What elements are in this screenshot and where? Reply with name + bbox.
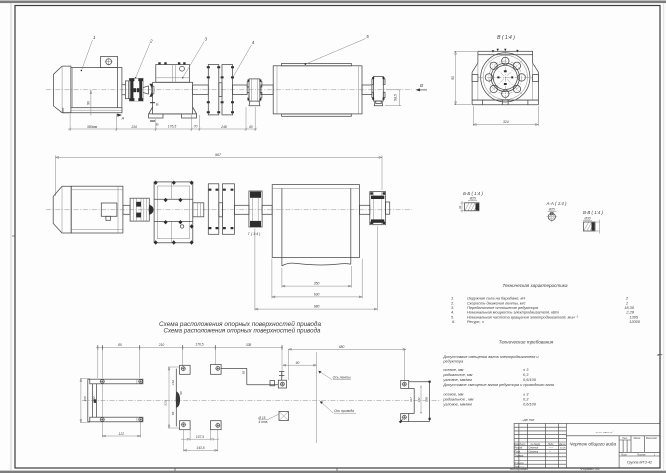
svg-text:90: 90 [296,361,300,365]
dim 107.5 under mid pads [181,430,219,441]
scheme dim chain line [96,347,283,349]
disc bolt marks right disc [221,66,234,113]
dim 98.5 vertical [385,90,401,106]
leader 4 disc coupling [233,45,252,78]
svg-text:Н.контр.: Н.контр. [515,463,525,465]
frame zone tick left [12,235,15,237]
bolt bottom-left [100,418,104,422]
diagonal centerline NE-SW [488,60,524,96]
dim 90 small [283,364,317,366]
flange outer circle [481,53,530,102]
title block row lines left part [514,427,566,464]
tension bracket pad [278,380,286,388]
svg-text:162: 162 [171,380,175,385]
bolt top-right [139,380,143,384]
svg-text:В: В [420,83,423,88]
sheet right edge line [663,3,664,471]
svg-text:210: 210 [158,343,165,347]
sheet bottom edge bar [0,471,666,473]
svg-text:Формат А1: Формат А1 [580,467,600,471]
svg-text:Группа МТЗ-42: Группа МТЗ-42 [627,461,652,465]
dim 680 bearing span [255,226,377,310]
bolt circle centerline [489,61,522,94]
right bracket dim arrow dots [429,381,431,420]
tension bracket side piece [270,381,275,386]
bearing P1 bolt dots [248,80,262,101]
bolt bottom-right [139,418,143,422]
bracket centerline slot blob [94,399,97,403]
bearing P2 bolt dots [372,77,384,100]
svg-text:Допустимое смещение валов реду: Допустимое смещение валов редуктора и пр… [442,382,554,387]
hole detail square [279,412,289,421]
hub inner lines [197,203,200,217]
svg-text:Лист: Лист [518,444,525,446]
disc plan hub [219,203,223,217]
center cross horizontal [478,76,533,78]
gearbox right foot [182,107,197,118]
bearing plan cap lines [253,198,259,221]
coupling outline box [129,78,143,101]
plate bottom pad [180,421,191,430]
svg-text:Ресурс, ч: Ресурс, ч [467,319,484,324]
shaft disc to bearing plan [234,205,249,214]
section A-A hatch [549,213,555,220]
svg-text:4: 4 [252,40,255,45]
svg-text:50: 50 [179,391,183,395]
housing base [472,100,538,105]
motor M1 terminal box [101,57,118,68]
disc plan bolt marks top [209,189,234,191]
motor M1 plan bell [53,186,71,233]
svg-text:122: 122 [119,432,125,436]
disc bolt marks left disc [207,66,220,113]
motor M1 foot line [71,109,122,111]
svg-text:107,5: 107,5 [196,435,204,439]
right part row lines [619,452,660,456]
svg-text:Смирнов: Смирнов [529,452,539,454]
gearbox plan center vertical [170,182,172,243]
frame zone mark right [658,354,663,356]
svg-text:Ø30: Ø30 [583,217,590,221]
section A-A shaft circle [548,213,555,220]
shaft drum to right bearing plan [360,205,370,214]
bolt hole NE [513,62,520,69]
svg-text:680: 680 [339,345,345,349]
svg-text:В ( 1:4 ): В ( 1:4 ) [497,35,515,41]
bracket left dim line [80,379,90,423]
leader 1 motor [81,40,92,71]
svg-text:Лит.: Лит. [621,438,628,440]
flange second circle [483,55,527,99]
bolt hole right [518,74,525,81]
svg-text:248: 248 [220,125,227,129]
shaft bearing to drum [261,85,273,95]
svg-text:Лист: Лист [620,454,627,456]
terminal box eye circle [106,59,112,65]
section V-V hatch [584,223,595,231]
svg-text:Масса: Масса [634,438,642,440]
bearing housing top plate [478,51,533,54]
gearbox base line [149,113,197,115]
name area divider [566,436,660,468]
right bracket leader arrow [399,419,403,423]
bearing P1 foot [249,101,260,106]
drum plan outer rect [272,185,359,258]
bolt hole top [502,57,509,64]
motor bracket top arm [90,379,143,384]
brake coupling disc 1 [208,65,219,115]
belt edge left [281,188,283,266]
bearing plan G body [249,191,262,227]
bolt dark dots on bolt circle [497,70,513,85]
gearbox plan bolt diamonds mid [164,198,194,229]
svg-text:525: 525 [164,400,168,405]
svg-text:Г ( 1:4 ): Г ( 1:4 ) [248,232,260,236]
gearbox input hub dark [149,205,154,215]
motor plan shaft [123,205,130,214]
dim 90 left vertical [454,51,477,104]
bolt hole left [485,74,492,81]
svg-text:Т.контр.: Т.контр. [515,455,525,457]
svg-text:132: 132 [417,397,421,402]
gearbox plan outer [154,182,193,243]
dim 324 bottom [473,106,538,126]
drum D1 end line right [357,66,359,114]
svg-text:Листов: Листов [636,454,646,456]
plate bottom pad bolt [182,423,186,427]
svg-text:Ось привода: Ось привода [334,409,354,413]
svg-text:Б-Б ( 1:4 ): Б-Б ( 1:4 ) [463,191,483,196]
svg-text:117: 117 [409,397,413,402]
motor bracket left bar [88,379,93,422]
svg-text:Техническая характеристика: Техническая характеристика [502,283,567,288]
svg-text:176,5: 176,5 [168,124,177,128]
shaft gearbox to disc coupling [193,85,209,95]
motor plan terminal box [101,203,117,216]
coupling plan body [130,198,149,221]
coupling MUVP flange 2 dark I-beam [139,79,142,100]
dim 350 belt [282,266,352,288]
bolt hole NW [490,62,497,69]
gearbox input half-coupling dark crescent [149,84,154,97]
svg-text:∼∼·∼•∼∼ʹ: ∼∼·∼•∼∼ʹ [595,431,614,435]
svg-text:143,5: 143,5 [196,446,204,450]
svg-text:190: 190 [425,397,429,402]
bearing P2 side tabs [372,79,385,98]
disc coupling plan 2 [222,184,234,235]
gearbox oil plug circle [180,66,185,71]
dim 630 drum [272,259,362,299]
leader axis belt [320,372,333,380]
svg-text:Ø25: Ø25 [469,197,476,201]
motor M1 fan joint line [117,68,119,108]
bearing housing body outline [472,55,538,100]
bearing plan right body [370,192,386,225]
motor plan body edge lines [71,186,123,233]
hole leader [259,414,279,420]
section arrow B lower [150,121,155,122]
gearbox top bolt marks [158,62,185,64]
bearing P2 body [374,76,384,101]
inner bore circle 1 [491,63,519,91]
svg-text:630: 630 [314,292,320,296]
svg-text:380мм: 380мм [87,125,98,129]
svg-text:В-В ( 1:4 ): В-В ( 1:4 ) [583,210,604,215]
svg-text:2: 2 [149,39,153,44]
svg-text:Масштаб: Масштаб [646,438,657,440]
right shaft end cap plan [386,202,390,214]
gearbox plan oil circle [180,225,183,228]
svg-text:338: 338 [246,343,252,347]
motor M1 body [71,68,122,108]
sheet left edge line [11,3,12,471]
drum D1 body [273,66,362,114]
dim 143.5 lower [184,430,218,452]
housing side tab right [533,75,539,82]
svg-text:90: 90 [451,76,455,80]
svg-text:А: А [656,353,659,357]
gearbox output hub [193,203,204,217]
svg-text:6.: 6. [452,319,455,324]
coupling MUVP flange 1 dark I-beam [130,79,133,100]
section V-V end line [595,220,600,234]
motor plan bell step line [61,186,63,233]
brake coupling disc 2 [222,65,233,115]
gearbox R1 upper housing [156,65,190,83]
axis of belt vertical line [316,352,318,443]
bearing P2 foot [374,101,382,106]
plate top pad [180,365,191,374]
terminal box bump [106,216,111,220]
bearing plan dark races [250,192,261,198]
svg-text:Схема расположения опорных пов: Схема расположения опорных поверхностей … [164,328,321,335]
svg-text:324: 324 [503,120,509,124]
shaft coupling to gearbox [143,86,148,94]
centerline main view [46,89,412,91]
shaft disc to bearing [233,85,248,95]
dim 680 line [288,348,406,350]
motor M1 plan body [71,186,123,233]
svg-text:5: 5 [366,34,369,39]
svg-text:85: 85 [242,371,246,375]
dim 967 overall [56,155,382,196]
connecting line pad to bracket [221,368,278,384]
svg-text:90: 90 [86,101,90,105]
section B-B dark end [476,203,480,210]
bolt top-left [100,380,104,384]
coupling plan dark marks [136,202,141,207]
svg-text:40: 40 [249,125,253,129]
plate top pad bolt [181,367,185,371]
shaft drum to right bearing [362,85,372,95]
axis of drive horizontal centerline [82,399,440,401]
dim 90 motor vertical [90,90,92,116]
belt edge right [350,188,352,264]
gearbox plan bolt diamonds top [154,181,194,185]
tension bracket stub [279,372,284,381]
svg-text:3: 3 [205,37,208,42]
motor shaft step [122,85,126,95]
title block left column lines [519,424,566,469]
svg-text:10.05: 10.05 [560,448,566,450]
svg-text:Ось ленты: Ось ленты [333,376,352,380]
right bracket dim line inner [420,385,422,414]
svg-text:Б: Б [156,122,159,127]
right bracket bottom bolt [403,415,407,419]
section arrow A [117,114,122,117]
svg-text:176,5: 176,5 [195,343,203,347]
section B-B hatch [465,203,478,211]
frame zone tick bottom 2 [336,468,338,471]
bearing right bolt dots [370,192,385,224]
motor M1 bell end [54,66,71,113]
disc plan bolt marks bottom [209,227,234,229]
leader 3 gearbox [183,42,205,78]
mid pad bottom [211,421,222,430]
svg-text:4 отв.: 4 отв. [259,420,269,424]
plate outer dim line [168,367,180,428]
bottom dim chain line [68,128,257,130]
svg-text:редуктора: редуктора [442,359,464,364]
leader 5 drum [305,39,365,65]
chain ticks [98,345,282,350]
motor bracket bottom arm [90,417,143,422]
svg-text:А: А [121,116,125,121]
gearbox left foot [149,107,163,118]
bolt hole SE [513,85,520,92]
middle plate vertical line [175,369,177,427]
section B-B vert dim [460,201,464,213]
coupling plan flange lines [134,198,147,221]
gearbox plan mid band [154,199,193,221]
leader axis drive [321,402,333,413]
drum belt lip top [282,63,352,65]
view arrow V [416,88,421,91]
drum plan inner line top [272,187,359,189]
mid pad top [211,365,222,375]
right bracket bottom pad [401,414,409,422]
svg-text:32: 32 [458,206,462,210]
inner bore circle 2 [493,65,517,89]
svg-text:Дата: Дата [558,444,566,446]
leader 2 coupling [136,44,150,78]
chain extension lines [98,348,405,381]
mid pad top bolt [216,367,220,371]
svg-text:134: 134 [131,125,137,129]
shaft bearing to drum plan [262,205,272,214]
svg-text:Ø25: Ø25 [548,207,555,211]
plate slot dark [176,392,180,408]
bearing P2 end cap [376,101,381,104]
bearing right dark races [371,196,384,199]
dim chain extension lines [70,107,255,131]
right bracket body [409,382,430,422]
gearbox cover joint lines [156,65,190,83]
drum D1 end line left [276,66,278,114]
bolt head marks on top [492,49,519,53]
svg-text:Технические требования: Технические требования [499,340,554,345]
section B-B shaft body [465,203,480,211]
housing inner side lines [478,63,533,100]
motor M1 feet [63,108,122,113]
section A-A center cross [547,212,558,223]
bearing P1 body [249,79,260,101]
svg-text:Чертеж общего вида: Чертеж общего вида [569,442,616,447]
bearing P1 cap lines [252,79,258,101]
svg-text:70: 70 [194,124,198,128]
svg-text:А-А ( 1:4 ): А-А ( 1:4 ) [545,201,567,206]
svg-text:150: 150 [83,396,87,401]
disc hub between [219,83,222,97]
section arrow B upper [150,102,155,103]
frame zone tick bottom 1 [174,468,176,471]
center cross vertical [504,49,506,106]
disc coupling plan 1 [208,184,219,235]
bolt hole SW [490,85,497,92]
right bracket top bolt [403,382,407,386]
section V-V dark collar [592,223,595,231]
svg-text:Разраб.: Разраб. [515,448,524,450]
svg-text:1: 1 [93,35,96,40]
bearing right cap lines [373,192,381,225]
drum belt lip bottom [282,114,352,116]
terminal box eye cross [105,58,113,66]
svg-text:Б: Б [156,102,159,107]
gearbox plan inner rect [157,186,189,239]
diagonal centerline NW-SE [488,60,524,96]
svg-text:№ докум.: № докум. [531,443,541,446]
mid pad bottom bolt [216,424,220,428]
svg-text:98,5: 98,5 [394,94,398,101]
svg-text:угловое, мм/мм: угловое, мм/мм [442,402,472,407]
svg-text:12000: 12000 [629,319,641,324]
svg-text:Утв.: Утв. [515,467,521,469]
motor bracket inner line [95,384,97,417]
motor body joint line [72,68,74,108]
belt break wavy line [282,263,351,266]
arm end lines [136,379,138,422]
svg-text:∼∼: ∼∼ [520,465,524,468]
svg-text:Подп.: Подп. [548,443,554,446]
bolt hole bottom [502,90,509,97]
svg-text:680: 680 [314,305,320,309]
svg-text:Семенов: Семенов [529,448,539,450]
svg-text:350: 350 [314,282,320,286]
svg-text:Пров.: Пров. [515,452,521,454]
right part column lines [619,436,644,453]
svg-text:80: 80 [118,343,122,347]
right bracket top pad [401,380,409,388]
coupling center hub dark [133,88,136,92]
centerline plan view [46,209,412,211]
gearbox input cap [152,86,154,94]
bearing P1 side tabs [247,82,262,99]
motor shaft end cap [125,81,128,99]
svg-text:∼ДВ 79іб: ∼ДВ 79іб [521,418,534,422]
svg-text:⁓∼: ⁓∼ [549,447,555,450]
dim 122 bottom [102,384,140,438]
svg-text:0,6/100: 0,6/100 [523,402,537,407]
section A-A keyway [551,213,554,215]
title block outer box [514,424,660,469]
tension bracket bolt [281,382,285,386]
motor bell step line [61,66,63,113]
sheet top edge bar [0,1,666,4]
gearbox R1 lower body [153,82,193,114]
dim chain ticks [69,128,257,130]
gearbox plan bolt diamonds bottom [154,240,194,244]
svg-text:84: 84 [171,411,175,415]
